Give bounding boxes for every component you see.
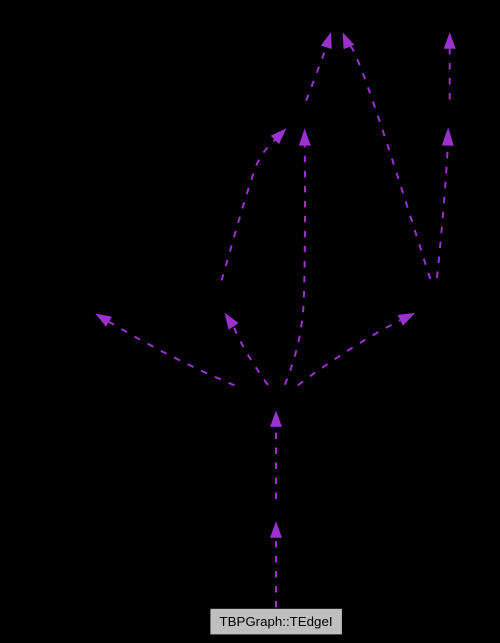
arrowhead to node F bottom-left 45deg [271, 128, 287, 144]
wire edge node E to node B (up-left short) [234, 326, 268, 385]
wire edge node C to node G (long diagonal) [349, 46, 430, 279]
svg-text:TBPGraph::TEdgeI: TBPGraph::TEdgeI [219, 614, 332, 629]
node TBPGraph::TEdgeI (gray box) [210, 609, 342, 635]
wire edge node J to node I (vertical top right) [449, 49, 451, 100]
arrowhead to node B [225, 313, 239, 330]
arrowhead to node C left [398, 313, 415, 326]
arrowhead to node A [95, 314, 112, 327]
arrowhead to node F bottom [299, 128, 311, 145]
arrowhead to node E [270, 410, 282, 427]
wire edge node F to node G [306, 47, 326, 101]
wire edge node E to node A (up-left long) [109, 322, 235, 386]
wire edge TEdgeI box to node D (vertical, lower) [275, 538, 277, 608]
arrowhead to node G left [321, 32, 332, 49]
wire edge node E to node F (tall curve) [285, 146, 305, 385]
arrowhead to node G right [343, 32, 355, 49]
wire edge node D to node E (vertical, upper) [275, 427, 277, 499]
wire edge node E to node C (up-right) [298, 320, 401, 385]
wire edge node C to node J [437, 146, 448, 278]
arrowhead to node J [442, 127, 454, 145]
arrowhead to node D [270, 521, 282, 538]
arrowhead to node I [444, 32, 456, 49]
wire edge node B to node F (diagonal curve) [222, 140, 275, 281]
